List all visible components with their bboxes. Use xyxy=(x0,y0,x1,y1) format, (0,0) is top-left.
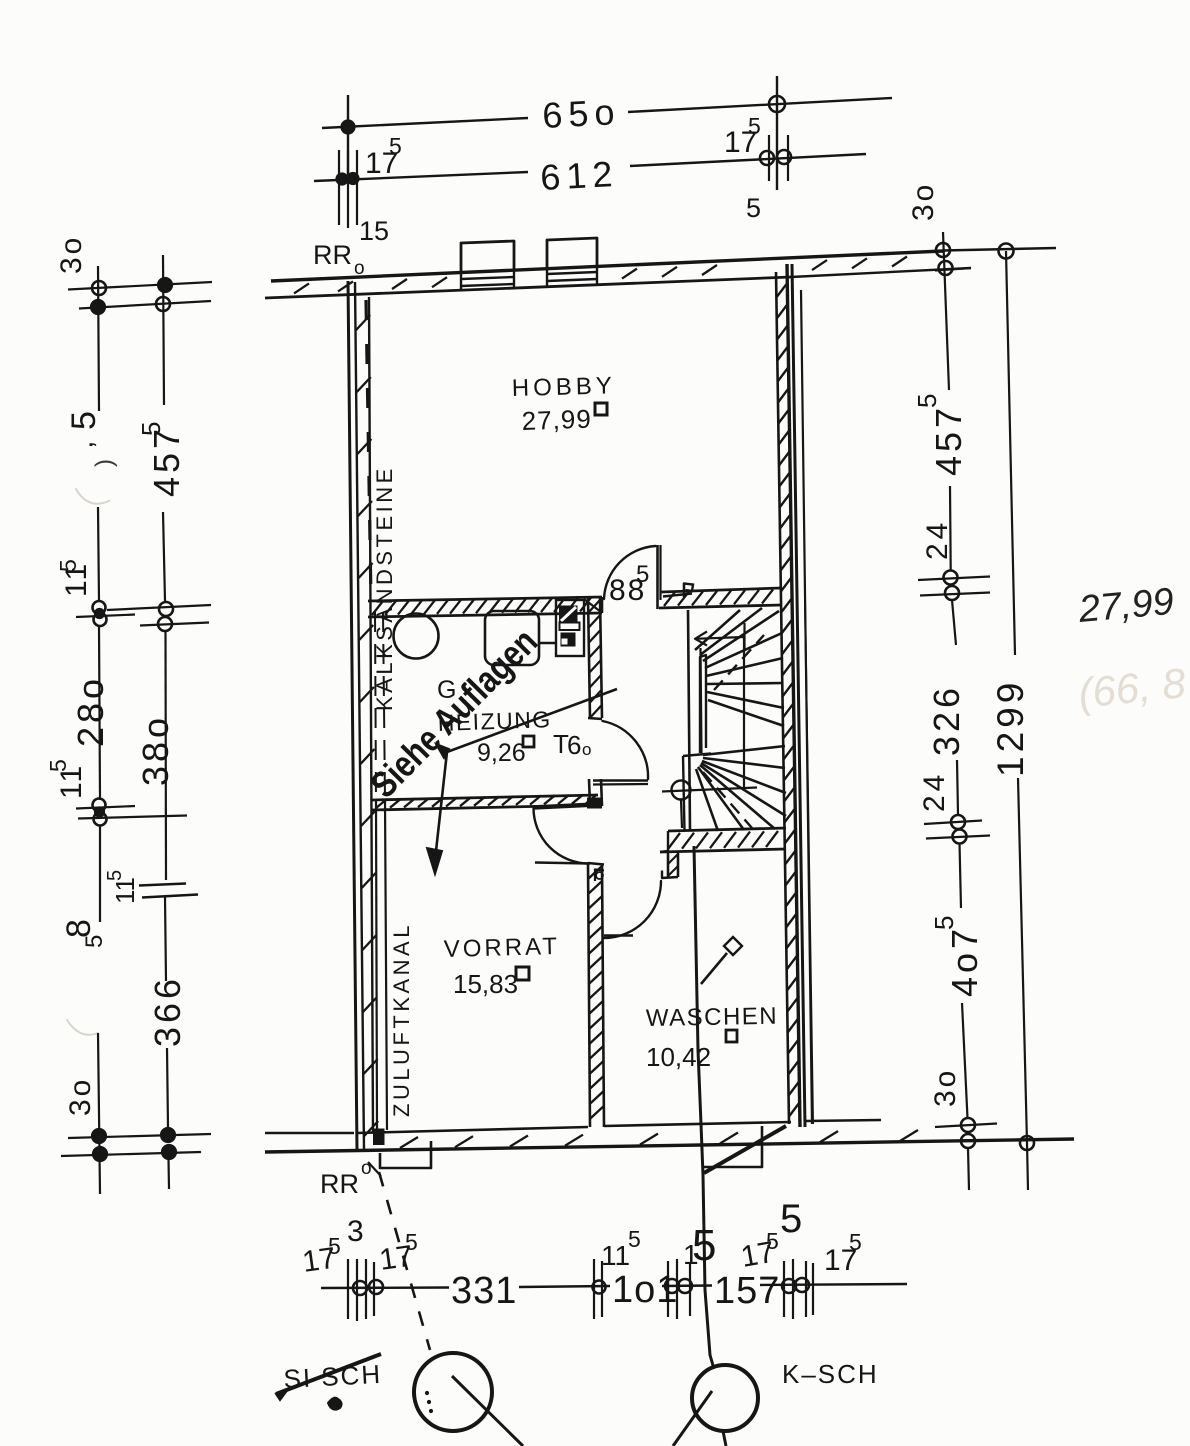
svg-text:366: 366 xyxy=(147,975,188,1047)
RR drain box below wall xyxy=(380,1141,431,1168)
svg-text:5: 5 xyxy=(328,1233,341,1259)
svg-text:): ) xyxy=(91,459,118,467)
stair top wall hatch xyxy=(664,592,675,606)
dim 650 line right xyxy=(628,98,892,112)
left chain A markers 11.5 mid xyxy=(93,601,106,614)
svg-text:5: 5 xyxy=(81,935,108,948)
svg-text:5: 5 xyxy=(746,193,761,223)
waste fixture connector xyxy=(701,953,727,984)
right chain C line xyxy=(943,232,949,390)
door hinge notch on wall top xyxy=(595,870,604,882)
right chain D line xyxy=(1006,251,1015,655)
svg-text:5: 5 xyxy=(780,1197,802,1241)
HEIZUNG south wall bottom line xyxy=(372,805,598,810)
SI-SCH outgoing pipe xyxy=(452,1376,523,1446)
stair walk line arrow head xyxy=(695,632,707,646)
left chain B tick 624 xyxy=(140,623,209,626)
party wall joint thin line b xyxy=(805,600,813,1124)
dim 612 line left xyxy=(314,172,528,181)
svg-text:3: 3 xyxy=(347,1215,364,1248)
stair walk line horizontal xyxy=(662,788,757,792)
HOBBY south wall top line xyxy=(368,597,602,601)
waste fixture diamond xyxy=(724,937,742,955)
electrical panel black square 2 xyxy=(561,633,575,646)
K-SCH drain diagonal xyxy=(704,1126,786,1173)
svg-text:1o1: 1o1 xyxy=(612,1269,678,1311)
right extension strokes xyxy=(768,135,770,181)
svg-text:KALKSANDSTEINE: KALKSANDSTEINE xyxy=(372,465,397,711)
right chain C markers 24 upper xyxy=(944,571,958,585)
window light-well W1 xyxy=(461,241,514,273)
left chain tick 608 xyxy=(107,605,211,610)
HEIZUNG east wall hatch xyxy=(588,600,600,613)
svg-text:5: 5 xyxy=(104,870,126,881)
VORRAT east wall line 2 xyxy=(602,864,604,1127)
right chain C markers 30 top xyxy=(936,243,950,257)
stair left wall line xyxy=(688,610,690,831)
bottom chain marker 101 xyxy=(593,1281,606,1294)
left chain B markers mid xyxy=(159,602,173,616)
right chain D markers xyxy=(999,244,1014,259)
stair lower tread dashed xyxy=(703,772,752,828)
K-SCH manhole pipe b xyxy=(723,1431,726,1446)
stair bottom wall top line xyxy=(668,828,786,831)
zuluftkanal duct line 1 xyxy=(375,612,376,800)
stair bottom wall hatch xyxy=(668,833,680,849)
right chain C markers 30 bottom xyxy=(961,1118,975,1132)
svg-text:ZULUFTKANAL: ZULUFTKANAL xyxy=(389,922,414,1117)
svg-text:27,99: 27,99 xyxy=(1076,581,1175,631)
left chain A line xyxy=(98,266,99,411)
wire bottom wall inner line left xyxy=(265,1132,354,1135)
siehe auflagen arrow line xyxy=(435,689,617,860)
dim 650 line left xyxy=(322,118,528,128)
svg-text:4o7: 4o7 xyxy=(944,925,985,997)
dim 612 right markers xyxy=(760,151,774,165)
svg-text:5: 5 xyxy=(628,1226,641,1252)
HEIZUNG east wall top corner diagonal xyxy=(584,599,601,612)
label HOBBY area square xyxy=(595,403,607,415)
svg-text:o: o xyxy=(361,1158,372,1179)
wire bottom wall inner line right xyxy=(604,1122,791,1126)
svg-text:K–SCH: K–SCH xyxy=(782,1359,879,1389)
wire left wall outer line 1 xyxy=(348,281,357,1150)
K-SCH manhole circle xyxy=(692,1365,758,1431)
svg-text:RR: RR xyxy=(313,240,352,270)
stair bottom wall left cap xyxy=(660,851,668,852)
bottom chain markers 157 xyxy=(665,1279,679,1293)
SI-SCH dots xyxy=(425,1391,428,1394)
bottom chain strokes 157 xyxy=(667,1261,669,1317)
hall-WASCHEN wall stub line 2 xyxy=(677,851,680,877)
HEIZUNG east wall end block xyxy=(588,798,602,808)
svg-text:VORRAT: VORRAT xyxy=(443,933,560,963)
tank-panel connector xyxy=(539,642,556,644)
HEIZUNG east wall below door line 1 xyxy=(589,779,590,806)
wire left wall inner face xyxy=(369,297,373,1133)
svg-text:15,83: 15,83 xyxy=(453,969,518,999)
svg-text:11: 11 xyxy=(601,1240,630,1271)
svg-text:o: o xyxy=(582,740,591,759)
VORRAT east wall top cap xyxy=(588,863,604,865)
svg-text:10,42: 10,42 xyxy=(646,1042,711,1072)
svg-text:27,99: 27,99 xyxy=(521,404,592,436)
window W2 glazing lines xyxy=(547,272,597,274)
svg-text:5: 5 xyxy=(849,1229,862,1255)
siehe auflagen arrow barb xyxy=(436,744,449,758)
door VORRAT swing arc xyxy=(534,808,590,864)
svg-text:5: 5 xyxy=(929,916,959,930)
svg-text:5: 5 xyxy=(766,1228,779,1254)
left chain A markers 11.5 lower xyxy=(93,799,106,812)
svg-text:HOBBY: HOBBY xyxy=(511,372,616,402)
svg-text:326: 326 xyxy=(926,684,967,756)
svg-text:3o: 3o xyxy=(907,182,940,221)
svg-text:3o: 3o xyxy=(64,1077,97,1116)
electrical panel outline xyxy=(556,600,584,656)
window W1 glazing lines xyxy=(461,277,514,279)
electrical panel black square 1 xyxy=(560,606,578,623)
svg-text:RR: RR xyxy=(320,1169,359,1199)
svg-text:5: 5 xyxy=(45,759,71,772)
left wall hatch xyxy=(356,315,370,330)
left chain ticks bottom xyxy=(68,1134,211,1138)
svg-text:24: 24 xyxy=(921,519,954,560)
stair bottom jog xyxy=(683,754,711,757)
HOBBY south wall hatch xyxy=(372,601,383,615)
label VORRAT area square xyxy=(516,967,529,980)
door TG leaf xyxy=(593,779,648,782)
page damage curl mark lower-left xyxy=(67,1020,98,1035)
right chain C markers 24 lower xyxy=(951,815,965,829)
left chain B markers bottom xyxy=(161,1128,175,1142)
svg-text:9,26: 9,26 xyxy=(477,739,526,767)
wire top wall inner extension to right chain xyxy=(791,268,971,277)
storage tank xyxy=(485,611,539,665)
HEIZUNG south wall hatch xyxy=(376,799,387,808)
svg-text:5: 5 xyxy=(389,133,402,159)
stair walk line start circle xyxy=(672,781,691,800)
wire bottom wall inner line neighbour xyxy=(806,1120,881,1121)
VORRAT east wall hatch xyxy=(588,866,602,879)
SI-SCH manhole circle xyxy=(414,1353,492,1431)
svg-text:6: 6 xyxy=(567,730,581,760)
svg-text:SI SCH: SI SCH xyxy=(283,1359,383,1394)
svg-text:457: 457 xyxy=(928,404,969,476)
svg-text:65o: 65o xyxy=(541,91,621,136)
hall-WASCHEN wall stub line 1 xyxy=(667,851,670,878)
svg-text:28o: 28o xyxy=(70,675,111,747)
stair top landing flag xyxy=(663,594,692,597)
door TG swing arc xyxy=(603,721,649,779)
VORRAT east wall line 1 xyxy=(588,863,590,1127)
left extension strokes xyxy=(338,150,340,225)
SI-SCH strike-through line xyxy=(276,1354,381,1394)
stair lower winder treads xyxy=(703,746,785,755)
dim 612 left markers xyxy=(337,174,348,185)
zuluftkanal duct line 2 xyxy=(383,612,385,800)
svg-text:3o: 3o xyxy=(929,1068,962,1107)
door VORRAT open leaf line xyxy=(535,863,590,864)
door WASCHEN leaf foot xyxy=(604,934,633,936)
right chain C tick 1125 xyxy=(935,1124,997,1128)
top wall hatch xyxy=(294,283,309,293)
right chain C ticks 24 upper xyxy=(918,577,990,581)
svg-text:157: 157 xyxy=(714,1270,780,1312)
K-SCH drain box xyxy=(704,1126,762,1167)
K-SCH manhole pipe a xyxy=(673,1391,712,1446)
door 88.5 swing arc xyxy=(604,546,656,599)
dim 650 left marker xyxy=(342,121,355,134)
svg-text:WASCHEN: WASCHEN xyxy=(646,1003,779,1032)
svg-text:5: 5 xyxy=(65,411,103,430)
stair stringer line xyxy=(701,648,702,753)
left chain ticks top xyxy=(68,282,212,290)
svg-text:5: 5 xyxy=(55,559,81,572)
svg-text:612: 612 xyxy=(539,153,619,198)
HEIZUNG east wall line 2 xyxy=(600,597,602,718)
wire left wall outer line 2 xyxy=(355,282,364,1150)
svg-text:o: o xyxy=(354,258,365,279)
left chain B ticks 115 xyxy=(139,884,186,886)
wire bottom wall inner line mid xyxy=(357,1127,588,1133)
stair top wall top line xyxy=(661,588,781,592)
stair newel spine xyxy=(700,655,706,753)
stair bottom wall bottom line xyxy=(660,849,786,852)
HEIZUNG east wall below door line 2 xyxy=(601,779,602,806)
door WASCHEN swing arc xyxy=(604,881,661,938)
left chain B markers top xyxy=(158,278,172,292)
stair upper tread dashed xyxy=(714,635,764,690)
svg-text:3o: 3o xyxy=(55,235,88,274)
left chain A markers 30 bottom xyxy=(92,1129,106,1143)
hall-WASCHEN stub hatch xyxy=(668,854,678,864)
right chain C tick 268 xyxy=(935,268,971,271)
right chain C ticks 24 lower xyxy=(924,821,982,825)
dim 612 line right xyxy=(630,154,866,166)
party wall hatch xyxy=(776,282,788,298)
svg-text:1299: 1299 xyxy=(990,679,1031,777)
bottom chain left strokes xyxy=(347,1259,349,1319)
left chain A markers 30 top xyxy=(92,281,106,295)
stair walk line top run xyxy=(695,637,744,639)
electrical panel slot xyxy=(560,623,580,631)
HEIZUNG south wall top line xyxy=(372,795,598,800)
HEIZUNG south wall thick lintel xyxy=(533,805,596,808)
sewer pipe vertical xyxy=(694,846,714,1369)
bottom chain line xyxy=(321,1286,449,1289)
left chain ticks 11.5 lower xyxy=(76,806,135,809)
bottom chain right markers xyxy=(782,1279,796,1293)
bottom chain left markers xyxy=(353,1281,367,1295)
hall-WASCHEN wall stub foot xyxy=(662,871,678,879)
stair walk line vertical below circle xyxy=(681,800,682,828)
party wall joint thin line xyxy=(801,290,812,1124)
window light-well W2 xyxy=(547,238,597,269)
HOBBY south wall right cap xyxy=(601,597,604,613)
stair top wall bottom line xyxy=(659,605,781,608)
boiler circle xyxy=(394,614,439,659)
left wall inner face dashes (HOBBY) xyxy=(366,300,371,600)
svg-text:5: 5 xyxy=(748,113,761,139)
left chain B line xyxy=(163,255,164,405)
stair walk line cross tick xyxy=(743,623,745,651)
svg-text:331: 331 xyxy=(451,1270,517,1312)
door 88.5 leaf xyxy=(656,545,659,609)
wire top wall inner line xyxy=(265,277,791,298)
svg-text:15: 15 xyxy=(359,216,389,246)
ink blob xyxy=(328,1398,342,1410)
svg-text:5: 5 xyxy=(405,1229,418,1255)
stair walk line riser xyxy=(743,636,745,788)
svg-text:5: 5 xyxy=(912,394,942,408)
stair upper winder treads xyxy=(695,610,740,650)
bottom chain strokes 101 xyxy=(593,1259,595,1319)
bottom wall hatch xyxy=(400,1137,418,1148)
right chain top connector line xyxy=(943,248,1056,251)
party wall heavy line b xyxy=(792,264,805,1127)
label HEIZUNG area square xyxy=(523,736,534,747)
svg-text:’: ’ xyxy=(84,441,117,448)
wire top wall outer line xyxy=(271,251,943,281)
RR dashed connection line xyxy=(379,1172,430,1350)
electrical panel square 1 white slash xyxy=(561,607,576,621)
svg-text:5: 5 xyxy=(136,422,166,436)
left chain tick 616 xyxy=(76,615,135,618)
svg-text:5: 5 xyxy=(636,561,649,588)
svg-text:5: 5 xyxy=(692,1221,716,1270)
wire bottom wall outer line xyxy=(265,1139,1074,1152)
RR bottom tick xyxy=(368,1162,381,1176)
party wall heavy line a xyxy=(787,264,800,1127)
door TG top jamb xyxy=(588,718,602,719)
zuluftkanal black end block xyxy=(374,1129,385,1145)
page damage curl mark upper-left xyxy=(76,489,109,504)
label WASCHEN area square xyxy=(726,1030,737,1042)
HEIZUNG east wall line 1 xyxy=(588,597,590,718)
svg-text:24: 24 xyxy=(918,771,951,812)
HOBBY south wall bottom line xyxy=(368,613,602,617)
svg-text:38o: 38o xyxy=(135,714,176,786)
siehe auflagen arrow head xyxy=(427,848,442,874)
electrical panel square 2 notch xyxy=(562,639,567,644)
dim 650 right marker xyxy=(769,96,785,112)
bottom chain right strokes xyxy=(783,1261,785,1317)
party wall left face xyxy=(776,272,789,1124)
